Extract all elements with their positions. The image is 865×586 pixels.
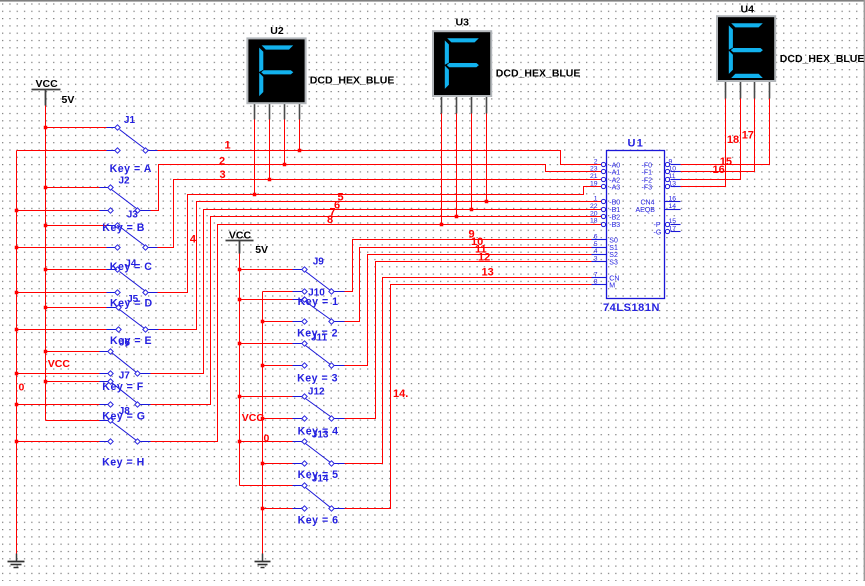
switch J5 (SPDT) bbox=[107, 307, 116, 309]
wire ground feed to J2 bottom throw bbox=[17, 210, 100, 212]
pins of U4 (gray stubs) bbox=[725, 82, 727, 99]
svg-text:0: 0 bbox=[264, 432, 270, 444]
svg-text:3: 3 bbox=[220, 169, 226, 181]
ground GND1 (left bank) bbox=[16, 554, 18, 562]
svg-text:-A3: -A3 bbox=[609, 184, 620, 191]
wire ground feed to J1 bottom throw bbox=[17, 150, 107, 152]
wire VCC feed to J5 top throw bbox=[46, 307, 107, 309]
wire net 4: J4 common to U2 pin1 and U1 A3 bbox=[158, 187, 602, 293]
switch J10 (SPDT) bbox=[293, 299, 302, 301]
wire ground bus 2 vertical x=262.2 bbox=[262, 292, 264, 554]
wire VCC feed to J3 top throw bbox=[46, 225, 107, 227]
svg-text:12: 12 bbox=[478, 252, 490, 264]
IC U1 74LS181N body bbox=[607, 151, 665, 299]
svg-text:J12: J12 bbox=[308, 387, 325, 398]
wire ground feed to J5 bottom throw bbox=[17, 329, 107, 331]
svg-text:6: 6 bbox=[594, 233, 598, 240]
svg-text:VCC: VCC bbox=[229, 229, 252, 241]
svg-text:14: 14 bbox=[669, 203, 677, 210]
wire net 8: J8 common to U3 pin1 and U1 B3 bbox=[151, 225, 602, 442]
wire U3 pin1 to net 8 bbox=[441, 114, 443, 225]
svg-text:-G: -G bbox=[654, 230, 662, 237]
svg-text:-A0: -A0 bbox=[609, 162, 620, 169]
svg-text:21: 21 bbox=[590, 173, 598, 180]
svg-text:S2: S2 bbox=[609, 252, 618, 259]
svg-text:J5: J5 bbox=[127, 294, 139, 305]
wire ground feed to J14 bottom throw bbox=[263, 508, 293, 510]
wire U3 pin3 to net 6 bbox=[471, 114, 473, 210]
wire ground feed to J4 bottom throw bbox=[17, 292, 107, 294]
svg-text:Key = A: Key = A bbox=[110, 163, 152, 175]
svg-text:18: 18 bbox=[727, 134, 739, 146]
U1 left pins S0-S3 CN M (stubs) bbox=[592, 239, 607, 241]
wire net 10: J10 common to U1 S1 bbox=[345, 248, 592, 322]
wire U2 pin4 to net 1 bbox=[299, 120, 301, 151]
switch J13 (SPDT) bbox=[293, 441, 302, 443]
ground GND2 (right bank) bbox=[262, 554, 264, 562]
wire VCC feed to J7 top throw bbox=[46, 381, 100, 383]
svg-text:J7: J7 bbox=[119, 370, 131, 381]
svg-text:23: 23 bbox=[590, 166, 598, 173]
svg-text:7: 7 bbox=[594, 271, 598, 278]
junction dots on ground bus 1 bbox=[15, 209, 19, 213]
svg-text:J14: J14 bbox=[312, 474, 329, 485]
wire VCC feed to J8 top throw bbox=[46, 420, 100, 422]
seven-segment display U4 DCD_HEX_BLUE bbox=[717, 16, 775, 81]
wire ground bus 1 vertical x=16 bbox=[16, 151, 18, 554]
svg-text:Key = H: Key = H bbox=[102, 457, 145, 469]
svg-text:4: 4 bbox=[594, 248, 598, 255]
wire net 2: J2 common to U2 pin3 and U1 A1 bbox=[151, 165, 602, 211]
svg-text:74LS181N: 74LS181N bbox=[603, 302, 660, 314]
wire ground feed to J13 bottom throw bbox=[263, 463, 293, 465]
svg-text:8: 8 bbox=[594, 279, 598, 286]
svg-text:J10: J10 bbox=[308, 288, 325, 299]
wire VCC feed to J9 top throw bbox=[240, 269, 293, 271]
svg-text:16: 16 bbox=[713, 164, 725, 176]
wire ground feed to J6 bottom throw bbox=[17, 373, 100, 375]
svg-text:11: 11 bbox=[669, 173, 676, 180]
svg-text:J1: J1 bbox=[124, 115, 136, 126]
svg-text:Key = B: Key = B bbox=[102, 222, 145, 234]
svg-text:-B0: -B0 bbox=[609, 200, 620, 207]
svg-text:S3: S3 bbox=[609, 260, 618, 267]
svg-text:22: 22 bbox=[590, 203, 598, 210]
wire ground feed to J12 bottom throw bbox=[263, 418, 293, 420]
wire net 14: J14 common to U1 M bbox=[345, 285, 592, 509]
svg-text:-F2: -F2 bbox=[642, 177, 653, 184]
wire U2 pin2 to net 3 bbox=[269, 120, 271, 180]
wire net 13: J13 common to U1 CN bbox=[345, 278, 592, 464]
svg-text:3: 3 bbox=[594, 256, 598, 263]
svg-text:13: 13 bbox=[669, 180, 677, 187]
wire net 17: U1 F2 to U4 pin2 bbox=[681, 99, 741, 180]
svg-text:20: 20 bbox=[590, 210, 598, 217]
wire ground feed to J8 bottom throw bbox=[17, 441, 100, 443]
svg-text:U3: U3 bbox=[456, 17, 470, 29]
U1 right pins P G (bubbles and stubs) bbox=[665, 222, 669, 226]
wire net 18: U1 F3 to U4 pin1 bbox=[681, 99, 726, 187]
svg-text:2: 2 bbox=[594, 158, 598, 165]
svg-text:J6: J6 bbox=[119, 338, 131, 349]
pins of U2 (gray stubs) bbox=[254, 104, 256, 120]
wire U3 pin4 to net 5 bbox=[486, 114, 488, 202]
switch J9 (SPDT) bbox=[293, 269, 302, 271]
wire net 12: J12 common to U1 S3 bbox=[345, 262, 592, 419]
wire ground feed to J9 bottom throw bbox=[263, 291, 293, 293]
svg-text:AEQB: AEQB bbox=[636, 207, 656, 214]
svg-text:J3: J3 bbox=[127, 210, 139, 221]
switch J8 (SPDT) bbox=[100, 420, 108, 422]
svg-text:Key = 6: Key = 6 bbox=[298, 515, 339, 527]
U1 right pins CN4 AEQB (stubs) bbox=[665, 201, 681, 203]
wire ground feed to J10 bottom throw bbox=[263, 321, 293, 323]
pins of U3 (gray stubs) bbox=[441, 96, 443, 114]
U1 right pins F0-F3 (bubbles and stubs) bbox=[665, 162, 669, 166]
switch J6 (SPDT) bbox=[100, 351, 108, 353]
svg-text:5: 5 bbox=[594, 241, 598, 248]
switch J11 (SPDT) bbox=[293, 343, 302, 345]
wire VCC feed to J12 top throw bbox=[240, 396, 293, 398]
svg-text:-B2: -B2 bbox=[609, 214, 620, 221]
svg-text:18: 18 bbox=[590, 218, 598, 225]
seven-segment display U3 DCD_HEX_BLUE bbox=[433, 31, 491, 96]
svg-text:-P: -P bbox=[654, 222, 661, 229]
svg-text:13: 13 bbox=[482, 267, 494, 279]
svg-text:-F0: -F0 bbox=[642, 162, 653, 169]
wire net 11: J11 common to U1 S2 bbox=[345, 255, 592, 366]
svg-text:17: 17 bbox=[669, 225, 677, 232]
svg-text:-F3: -F3 bbox=[642, 184, 653, 191]
svg-text:S1: S1 bbox=[609, 245, 618, 252]
switch J7 (SPDT) bbox=[100, 381, 108, 383]
svg-text:CN: CN bbox=[609, 275, 619, 282]
wire VCC feed to J4 top throw bbox=[46, 269, 107, 271]
svg-text:M: M bbox=[609, 283, 615, 290]
wire VCC bus 2 vertical x=239.3 bbox=[239, 254, 241, 486]
switch J4 (SPDT) bbox=[107, 269, 115, 271]
svg-text:-B3: -B3 bbox=[609, 222, 620, 229]
svg-text:VCC: VCC bbox=[36, 78, 59, 90]
svg-text:10: 10 bbox=[669, 166, 677, 173]
wire U2 pin1 to net 4 bbox=[254, 120, 256, 195]
svg-text:8: 8 bbox=[327, 214, 333, 226]
switch J3 (SPDT) bbox=[107, 225, 115, 227]
svg-text:J2: J2 bbox=[119, 176, 131, 187]
svg-text:17: 17 bbox=[742, 130, 754, 142]
switch J14 (SPDT) bbox=[293, 485, 302, 487]
wire ground feed to J3 bottom throw bbox=[17, 247, 107, 249]
svg-text:15: 15 bbox=[669, 218, 677, 225]
svg-text:S0: S0 bbox=[609, 238, 618, 245]
U1 left pins A0-A3 B0-B3 (bubbles) bbox=[601, 162, 605, 166]
wire VCC feed to J11 top throw bbox=[240, 343, 293, 345]
svg-text:J11: J11 bbox=[311, 333, 328, 344]
svg-text:U1: U1 bbox=[628, 138, 645, 150]
wire VCC feed to J2 top throw bbox=[46, 187, 100, 189]
wire net 15: U1 F0 to U4 pin4 bbox=[681, 99, 770, 165]
wire VCC feed to J1 top throw bbox=[46, 127, 107, 129]
svg-text:U2: U2 bbox=[270, 25, 284, 37]
svg-text:VCC: VCC bbox=[48, 358, 71, 370]
switch J12 (SPDT) bbox=[293, 396, 302, 398]
svg-text:J13: J13 bbox=[312, 430, 329, 441]
wire VCC feed to J13 top throw bbox=[240, 441, 293, 443]
wire net 9: J9 common to U1 S0 bbox=[345, 240, 592, 292]
wire U3 pin2 to net 7 bbox=[456, 114, 458, 217]
svg-text:1: 1 bbox=[225, 140, 231, 152]
wire net 5: J5 common to U3 pin4 and U1 B0 bbox=[159, 202, 602, 330]
svg-text:14.: 14. bbox=[393, 388, 408, 400]
junction dots U3 pins bbox=[440, 223, 444, 227]
junction dots on VCC bus 2 bbox=[238, 268, 242, 272]
svg-text:-B1: -B1 bbox=[609, 207, 620, 214]
svg-text:CN4: CN4 bbox=[641, 200, 655, 207]
wire ground feed to J11 bottom throw bbox=[263, 365, 293, 367]
svg-text:J4: J4 bbox=[125, 259, 137, 270]
svg-text:19: 19 bbox=[590, 180, 598, 187]
wire net 1: J1 common to U2 pin4 and U1 A0 bbox=[158, 151, 602, 165]
svg-text:0: 0 bbox=[19, 382, 25, 394]
wire ground feed to J7 bottom throw bbox=[17, 404, 100, 406]
svg-text:5V: 5V bbox=[255, 244, 268, 256]
wire net 16: U1 F1 to U4 pin3 bbox=[681, 99, 755, 172]
wire VCC feed to J10 top throw bbox=[240, 299, 293, 301]
svg-text:1: 1 bbox=[594, 196, 598, 203]
switch J1 (SPDT) bbox=[107, 127, 115, 129]
svg-text:DCD_HEX_BLUE: DCD_HEX_BLUE bbox=[310, 75, 395, 87]
svg-text:-A2: -A2 bbox=[609, 177, 620, 184]
svg-text:-F1: -F1 bbox=[642, 170, 653, 177]
wire net 6: J6 common to U3 pin3 and U1 B1 bbox=[151, 210, 602, 374]
svg-text:J8: J8 bbox=[119, 406, 131, 417]
svg-text:16: 16 bbox=[669, 196, 677, 203]
svg-text:J9: J9 bbox=[313, 257, 325, 268]
svg-text:Key = F: Key = F bbox=[102, 381, 144, 393]
svg-text:9: 9 bbox=[669, 158, 673, 165]
wire VCC feed to J14 top throw bbox=[240, 485, 293, 487]
wire net 3: J3 common to U2 pin2 and U1 A2 bbox=[158, 180, 602, 248]
junction dots U2 pins bbox=[253, 193, 257, 197]
wire net 7: J7 common to U3 pin2 and U1 B2 bbox=[151, 217, 602, 405]
wire U2 pin3 to net 2 bbox=[284, 120, 286, 165]
svg-text:2: 2 bbox=[219, 155, 225, 167]
junction dots on VCC bus 1 bbox=[44, 126, 48, 130]
svg-text:DCD_HEX_BLUE: DCD_HEX_BLUE bbox=[780, 53, 865, 65]
svg-text:Key = 3: Key = 3 bbox=[297, 373, 338, 385]
wire VCC feed to J6 top throw bbox=[46, 351, 100, 353]
svg-text:-A1: -A1 bbox=[609, 170, 620, 177]
svg-text:DCD_HEX_BLUE: DCD_HEX_BLUE bbox=[496, 68, 581, 80]
junction dots on ground bus 2 bbox=[261, 320, 265, 324]
svg-text:4: 4 bbox=[190, 234, 197, 246]
seven-segment display U2 DCD_HEX_BLUE bbox=[247, 38, 305, 103]
svg-text:U4: U4 bbox=[741, 4, 755, 16]
svg-text:Key = E: Key = E bbox=[110, 335, 152, 347]
switch J2 (SPDT) bbox=[100, 187, 108, 189]
svg-text:VCC: VCC bbox=[242, 412, 265, 424]
svg-text:5V: 5V bbox=[62, 94, 75, 106]
wire VCC bus 1 vertical x=45.7 bbox=[45, 106, 47, 421]
